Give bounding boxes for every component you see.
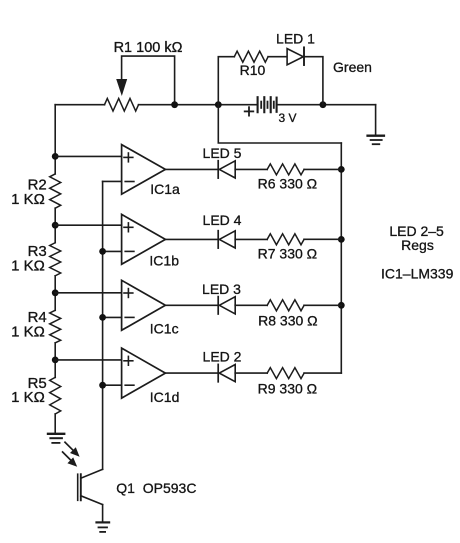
wire : IC1d output	[165, 372, 217, 374]
svg-text:LED 2: LED 2	[203, 349, 242, 365]
wire : IC1d plus input	[55, 359, 121, 361]
wire : LED1 to rail junction	[304, 57, 323, 105]
node D : divider tap 4	[52, 357, 59, 364]
resistor R4	[50, 310, 61, 343]
ground : top right	[368, 136, 384, 145]
ground : below R5	[48, 434, 64, 443]
wire : LED3 to R8	[235, 304, 267, 306]
svg-text:IC1b: IC1b	[149, 253, 179, 269]
wire : R5 to ground	[54, 414, 56, 433]
wire : drop to top-right ground	[375, 105, 377, 135]
wire : IC1b output	[165, 238, 217, 240]
wire	[54, 276, 56, 311]
node : bus tap R7	[338, 236, 345, 243]
LED 1	[287, 47, 304, 65]
wire : LED5 to R6	[235, 168, 267, 170]
label battery plus sign	[245, 107, 254, 115]
wire : rail right of battery	[277, 104, 376, 106]
svg-text:LED 1: LED 1	[276, 30, 315, 46]
svg-text:3 V: 3 V	[278, 111, 296, 125]
wire	[54, 343, 56, 378]
svg-text:IC1c: IC1c	[150, 321, 179, 337]
wire : LED supply bus	[340, 143, 342, 373]
node : bus tap R8	[338, 302, 345, 309]
svg-text:Green: Green	[333, 59, 372, 75]
op-amp U1 IC1c	[122, 280, 166, 330]
svg-text:R6 330 Ω: R6 330 Ω	[258, 175, 318, 191]
wire : IC1b minus input	[103, 250, 122, 252]
svg-text:R10: R10	[240, 62, 266, 78]
wire : LED4 to R7	[235, 238, 267, 240]
wire : R9 to bus	[304, 372, 341, 374]
R1 wiper arrowhead	[116, 79, 127, 96]
wire : IC1b plus input	[55, 224, 121, 226]
resistor R1 (potentiometer body)	[105, 98, 139, 111]
wire : R1 wiper loop	[122, 56, 175, 105]
battery B1 3V	[258, 97, 277, 112]
svg-text:IC1–LM339: IC1–LM339	[381, 265, 454, 281]
wire : rail from R1 to battery	[139, 104, 258, 106]
wire : R6 to bus	[304, 168, 341, 170]
op-amp U1 IC1b	[122, 214, 166, 264]
wire : R8 to bus	[304, 304, 341, 306]
svg-text:LED 5: LED 5	[203, 145, 242, 161]
svg-text:R7 330 Ω: R7 330 Ω	[258, 245, 318, 261]
wire : IC1c plus input	[55, 292, 121, 294]
svg-text:LED 4: LED 4	[203, 212, 242, 228]
light arrow 1 into Q1	[65, 442, 80, 457]
svg-text:Q1 OP593C: Q1 OP593C	[116, 480, 196, 496]
wire : R7 to bus	[304, 238, 341, 240]
wire : main top rail left of battery, includes R1 body	[55, 104, 104, 106]
svg-text:R9 330 Ω: R9 330 Ω	[258, 380, 318, 396]
svg-text:Regs: Regs	[401, 237, 434, 253]
wire : IC1d minus input	[103, 384, 122, 386]
wire : IC1c output	[165, 304, 217, 306]
ground : below Q1	[97, 522, 110, 532]
svg-text:IC1a: IC1a	[150, 181, 180, 197]
resistor R9	[267, 368, 304, 379]
node A : divider tap 1	[52, 153, 59, 160]
node : bus tap IC1c	[99, 314, 106, 321]
resistor R8	[267, 300, 304, 311]
wire	[54, 208, 56, 243]
wire : LED2 to R9	[235, 372, 267, 374]
LED 2	[218, 364, 235, 381]
wire : Q1 emitter to ground	[102, 505, 104, 522]
LED 3	[218, 297, 235, 314]
svg-text:1 KΩ: 1 KΩ	[11, 389, 45, 406]
node : bus tap R6	[338, 166, 345, 173]
LED 5	[218, 161, 235, 178]
op-amp U1 IC1d	[122, 348, 166, 398]
wire : LED supply feed from rail	[218, 105, 341, 143]
resistor R7	[267, 234, 304, 245]
light arrow 2 into Q1	[63, 452, 78, 467]
transistor Q1 (photo)	[78, 469, 103, 504]
svg-text:1 KΩ: 1 KΩ	[11, 191, 45, 208]
wire : left rail with R2-R5 ladder	[54, 105, 56, 174]
wire : R10/LED1 branch riser	[218, 57, 234, 105]
node : rail junction at R10 branch	[215, 101, 222, 108]
svg-text:1 KΩ: 1 KΩ	[11, 258, 45, 275]
svg-text:1 KΩ: 1 KΩ	[11, 323, 45, 340]
resistor R3	[50, 243, 61, 276]
resistor R2	[50, 174, 61, 208]
wire : IC1a minus input	[103, 180, 122, 182]
LED 4	[218, 231, 235, 248]
resistor R10	[234, 51, 268, 62]
svg-text:R8 330 Ω: R8 330 Ω	[258, 313, 318, 329]
resistor R5	[50, 377, 61, 414]
wire : IC1c minus input	[103, 316, 122, 318]
svg-text:R1 100 kΩ: R1 100 kΩ	[114, 40, 183, 56]
wire : inverting-input bus	[102, 181, 104, 469]
svg-text:LED 3: LED 3	[202, 281, 241, 297]
node C : divider tap 3	[52, 289, 59, 296]
resistor R6	[267, 164, 304, 175]
op-amp U1 IC1a	[122, 145, 166, 195]
wire : IC1a plus input	[55, 155, 121, 157]
node B : divider tap 2	[52, 222, 59, 229]
svg-text:IC1d: IC1d	[150, 389, 180, 405]
node : bus tap IC1b	[99, 248, 106, 255]
wire : IC1a output	[165, 168, 217, 170]
node : wiper junction	[171, 101, 178, 108]
node : rail junction at LED1 return	[320, 101, 327, 108]
wire : R10 to LED1	[268, 56, 287, 58]
node : bus tap IC1d	[99, 382, 106, 389]
